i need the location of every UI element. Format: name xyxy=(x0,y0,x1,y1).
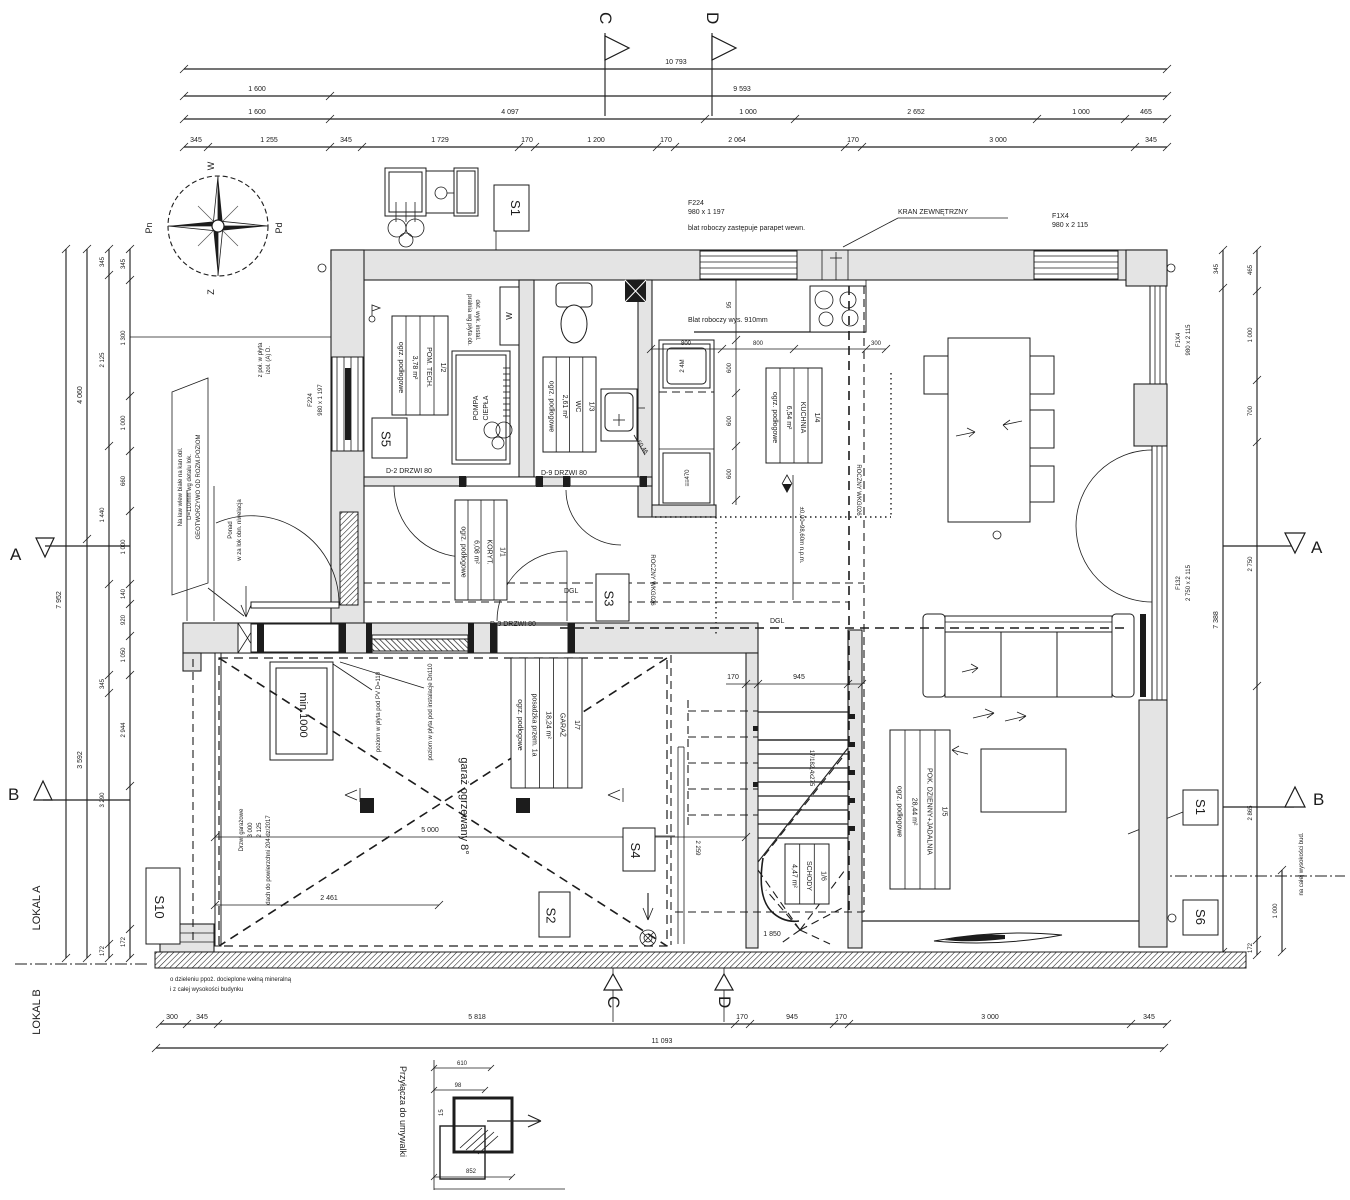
svg-text:≡≡470: ≡≡470 xyxy=(685,469,691,487)
svg-text:F1X4: F1X4 xyxy=(1176,332,1182,347)
svg-text:S5: S5 xyxy=(379,431,394,447)
svg-text:172: 172 xyxy=(121,936,127,947)
svg-text:POM. TECH.: POM. TECH. xyxy=(425,347,432,388)
svg-text:S2: S2 xyxy=(544,908,559,924)
svg-text:1 255: 1 255 xyxy=(260,137,278,144)
svg-text:800: 800 xyxy=(681,341,692,347)
svg-text:KRAN ZEWNĘTRZNY: KRAN ZEWNĘTRZNY xyxy=(898,209,968,216)
svg-text:F132: F132 xyxy=(1176,576,1182,590)
svg-text:2 652: 2 652 xyxy=(907,109,925,116)
svg-text:600: 600 xyxy=(727,415,733,426)
svg-text:ROCZNY WKG026: ROCZNY WKG026 xyxy=(855,464,861,516)
svg-text:600: 600 xyxy=(727,468,733,479)
svg-text:B: B xyxy=(8,785,19,804)
svg-text:800: 800 xyxy=(753,341,764,347)
svg-text:170: 170 xyxy=(727,674,739,681)
svg-text:1 440: 1 440 xyxy=(100,507,106,523)
svg-text:1/7: 1/7 xyxy=(573,720,580,730)
svg-text:1/5: 1/5 xyxy=(941,807,948,817)
svg-text:4 060: 4 060 xyxy=(77,386,84,404)
svg-text:CIEPŁA: CIEPŁA xyxy=(483,395,490,420)
svg-text:C: C xyxy=(596,12,615,24)
svg-text:C: C xyxy=(604,996,623,1008)
svg-text:170: 170 xyxy=(847,137,859,144)
svg-text:POK. DZIENNY+JADALNIA: POK. DZIENNY+JADALNIA xyxy=(926,768,933,855)
svg-text:140: 140 xyxy=(121,588,127,599)
svg-text:345: 345 xyxy=(1214,263,1220,274)
svg-text:A: A xyxy=(1311,538,1323,557)
svg-text:izol. (A) D.: izol. (A) D. xyxy=(266,346,272,374)
svg-text:F224: F224 xyxy=(308,393,314,407)
svg-text:D-9 DRZWI 80: D-9 DRZWI 80 xyxy=(541,470,587,477)
svg-text:3 000: 3 000 xyxy=(248,822,254,838)
svg-text:4 097: 4 097 xyxy=(501,109,519,116)
svg-text:Pn: Pn xyxy=(144,222,154,233)
svg-text:3 592: 3 592 xyxy=(77,751,84,769)
svg-text:ogrz. podłogowe: ogrz. podłogowe xyxy=(896,786,903,837)
svg-text:1 000: 1 000 xyxy=(1273,903,1279,919)
svg-text:2 944: 2 944 xyxy=(121,722,127,738)
svg-text:852: 852 xyxy=(466,1169,477,1175)
svg-text:1/2: 1/2 xyxy=(439,363,446,373)
svg-text:1 300: 1 300 xyxy=(121,330,127,346)
svg-text:1 000: 1 000 xyxy=(739,109,757,116)
svg-text:7 388: 7 388 xyxy=(1213,611,1220,629)
svg-text:7 952: 7 952 xyxy=(56,591,63,609)
svg-text:blat roboczy zastępuje parapet: blat roboczy zastępuje parapet wewn. xyxy=(688,225,805,232)
svg-text:poziom w płyta pod instalacje: poziom w płyta pod instalacje Dn110 xyxy=(428,663,434,761)
svg-text:ogrz. podłogowe: ogrz. podłogowe xyxy=(397,342,404,393)
svg-text:11 093: 11 093 xyxy=(652,1038,673,1045)
svg-text:Blat roboczy wys. 910mm: Blat roboczy wys. 910mm xyxy=(688,317,768,324)
svg-text:2 064: 2 064 xyxy=(728,137,746,144)
svg-text:S4: S4 xyxy=(628,843,643,859)
svg-text:o dzieleniu ppoż. docieplone w: o dzieleniu ppoż. docieplone wełną miner… xyxy=(170,977,292,983)
svg-text:5 818: 5 818 xyxy=(468,1014,486,1021)
svg-text:945: 945 xyxy=(793,674,805,681)
svg-text:345: 345 xyxy=(1145,137,1157,144)
svg-text:980 x 2 115: 980 x 2 115 xyxy=(1052,222,1088,229)
svg-text:2 259: 2 259 xyxy=(694,840,700,856)
svg-text:1 850: 1 850 xyxy=(763,931,781,938)
svg-text:345: 345 xyxy=(190,137,202,144)
svg-text:1 000: 1 000 xyxy=(1072,109,1090,116)
svg-text:Z: Z xyxy=(206,289,216,295)
svg-text:980 x 1 197: 980 x 1 197 xyxy=(318,384,324,416)
svg-text:1/4: 1/4 xyxy=(813,413,820,423)
svg-text:SCHODY: SCHODY xyxy=(805,861,812,891)
svg-text:KUCHNIA: KUCHNIA xyxy=(799,402,806,434)
svg-text:S1: S1 xyxy=(1193,799,1208,815)
svg-text:17/182,4x275: 17/182,4x275 xyxy=(808,750,814,787)
svg-text:3,78 m²: 3,78 m² xyxy=(411,356,418,380)
svg-text:170: 170 xyxy=(835,1014,847,1021)
svg-text:345: 345 xyxy=(121,258,127,269)
svg-text:GEOTWORZYWO OD ROZM.POZIOM: GEOTWORZYWO OD ROZM.POZIOM xyxy=(196,435,202,540)
svg-text:z poł. w płyta: z poł. w płyta xyxy=(258,342,264,377)
svg-text:700: 700 xyxy=(1248,405,1254,416)
svg-text:10 793: 10 793 xyxy=(665,59,687,66)
svg-text:172: 172 xyxy=(100,945,106,956)
svg-text:170: 170 xyxy=(660,137,672,144)
svg-text:det. wyk. instal.: det. wyk. instal. xyxy=(474,299,480,340)
svg-text:345: 345 xyxy=(340,137,352,144)
svg-text:345: 345 xyxy=(100,256,106,267)
svg-text:300: 300 xyxy=(871,341,882,347)
svg-text:345: 345 xyxy=(100,678,106,689)
svg-text:1 000: 1 000 xyxy=(1248,327,1254,343)
svg-text:2 750: 2 750 xyxy=(1248,556,1254,572)
svg-text:600: 600 xyxy=(727,362,733,373)
svg-text:95: 95 xyxy=(727,301,733,308)
svg-text:1 000: 1 000 xyxy=(121,415,127,431)
svg-text:5 000: 5 000 xyxy=(421,827,439,834)
svg-text:LOKAL B: LOKAL B xyxy=(31,989,43,1034)
svg-text:345: 345 xyxy=(1143,1014,1155,1021)
svg-text:DGL: DGL xyxy=(564,588,579,595)
svg-text:300: 300 xyxy=(166,1014,178,1021)
svg-text:KORYT.: KORYT. xyxy=(486,539,493,564)
svg-text:170: 170 xyxy=(736,1014,748,1021)
svg-text:6,08 m²: 6,08 m² xyxy=(473,540,480,564)
svg-text:posadzka przem. 1a: posadzka przem. 1a xyxy=(530,693,537,756)
svg-text:POMPA: POMPA xyxy=(473,395,480,420)
svg-text:±0,00=98,60m n.p.m.: ±0,00=98,60m n.p.m. xyxy=(798,507,804,564)
svg-text:min.1000: min.1000 xyxy=(297,692,309,737)
svg-text:610: 610 xyxy=(457,1061,468,1067)
svg-text:2 125: 2 125 xyxy=(257,822,263,838)
svg-text:945: 945 xyxy=(786,1014,798,1021)
svg-text:i z całej wysokości budynku: i z całej wysokości budynku xyxy=(170,987,243,993)
svg-text:1 729: 1 729 xyxy=(431,137,449,144)
svg-text:S10: S10 xyxy=(152,895,167,918)
svg-text:pralnia wg płyta ob.: pralnia wg płyta ob. xyxy=(466,294,472,346)
svg-text:garaż ogrzewany 8°: garaż ogrzewany 8° xyxy=(458,757,470,854)
svg-text:2 125: 2 125 xyxy=(100,352,106,368)
svg-text:1 000: 1 000 xyxy=(121,539,127,555)
svg-text:4,47 m²: 4,47 m² xyxy=(790,864,797,888)
svg-text:1/3: 1/3 xyxy=(587,402,594,412)
svg-text:S6: S6 xyxy=(1193,909,1208,925)
svg-text:98: 98 xyxy=(455,1083,462,1089)
svg-text:ogrz. podłogowe: ogrz. podłogowe xyxy=(516,699,523,750)
svg-text:ogrz. podłogowe: ogrz. podłogowe xyxy=(771,392,778,443)
svg-text:660: 660 xyxy=(121,475,127,486)
svg-text:na całej wysokości bud.: na całej wysokości bud. xyxy=(1299,832,1305,895)
svg-text:15: 15 xyxy=(439,1109,445,1116)
svg-text:3 000: 3 000 xyxy=(981,1014,999,1021)
svg-text:ogrz. podłogowe: ogrz. podłogowe xyxy=(548,381,555,432)
svg-text:465: 465 xyxy=(1140,109,1152,116)
svg-text:6,54 m²: 6,54 m² xyxy=(785,406,792,430)
svg-text:980 x 2 115: 980 x 2 115 xyxy=(1186,324,1192,356)
svg-text:18,24 m²: 18,24 m² xyxy=(545,711,552,739)
svg-text:A: A xyxy=(10,545,22,564)
svg-text:345: 345 xyxy=(196,1014,208,1021)
svg-text:3 000: 3 000 xyxy=(989,137,1007,144)
svg-text:28,44 m²: 28,44 m² xyxy=(911,798,918,826)
svg-text:1/1: 1/1 xyxy=(499,547,506,557)
svg-text:9 593: 9 593 xyxy=(733,86,751,93)
svg-text:poziom w płyta pod PV D=110: poziom w płyta pod PV D=110 xyxy=(376,671,382,752)
svg-text:1 200: 1 200 xyxy=(587,137,605,144)
svg-text:W: W xyxy=(206,161,216,170)
svg-text:Ponad: Ponad xyxy=(228,521,234,538)
svg-text:S1: S1 xyxy=(508,200,523,216)
svg-text:Drzwi garażowe: Drzwi garażowe xyxy=(239,808,245,851)
svg-text:1 600: 1 600 xyxy=(248,109,266,116)
svg-text:D-3 DRZWI 80: D-3 DRZWI 80 xyxy=(490,621,536,628)
svg-text:ogrz. podłogowe: ogrz. podłogowe xyxy=(460,526,467,577)
svg-text:Na ław wlew białe na kan obl.: Na ław wlew białe na kan obl. xyxy=(178,447,184,526)
svg-text:S3: S3 xyxy=(602,591,617,607)
svg-text:1/6: 1/6 xyxy=(820,871,827,881)
svg-text:F1X4: F1X4 xyxy=(1052,213,1069,220)
svg-text:W: W xyxy=(505,312,514,320)
svg-text:B: B xyxy=(1313,790,1324,809)
svg-text:LOKAL A: LOKAL A xyxy=(31,885,43,931)
svg-text:1 600: 1 600 xyxy=(248,86,266,93)
svg-text:2 4M: 2 4M xyxy=(680,359,686,372)
svg-text:D: D xyxy=(703,12,722,24)
svg-text:WC: WC xyxy=(574,401,581,413)
svg-text:D: D xyxy=(715,996,734,1008)
svg-text:980 x 1 197: 980 x 1 197 xyxy=(688,209,725,216)
svg-text:Przyłącza do umywalki: Przyłącza do umywalki xyxy=(398,1066,408,1157)
svg-text:1 050: 1 050 xyxy=(121,647,127,663)
svg-text:170: 170 xyxy=(521,137,533,144)
svg-text:2 750 x 2 115: 2 750 x 2 115 xyxy=(1186,564,1192,601)
svg-text:DGL: DGL xyxy=(770,618,785,625)
svg-text:D=110mm wg detalu lok.: D=110mm wg detalu lok. xyxy=(187,454,193,520)
svg-text:2,61 m²: 2,61 m² xyxy=(561,395,568,419)
svg-text:920: 920 xyxy=(121,614,127,625)
svg-text:465: 465 xyxy=(1248,264,1254,275)
svg-text:2 461: 2 461 xyxy=(320,895,338,902)
svg-text:172: 172 xyxy=(1248,942,1254,953)
svg-text:w za lok obn. niwelacja: w za lok obn. niwelacja xyxy=(237,499,243,562)
svg-text:D-2 DRZWI 80: D-2 DRZWI 80 xyxy=(386,468,432,475)
svg-text:F224: F224 xyxy=(688,200,704,207)
svg-text:dach do powierzchni 204 dz/201: dach do powierzchni 204 dz/2017 xyxy=(266,815,272,905)
svg-text:ROCZNY WKG026: ROCZNY WKG026 xyxy=(649,554,655,606)
svg-text:Pd: Pd xyxy=(274,222,284,233)
svg-text:GARAŻ: GARAŻ xyxy=(559,713,568,738)
